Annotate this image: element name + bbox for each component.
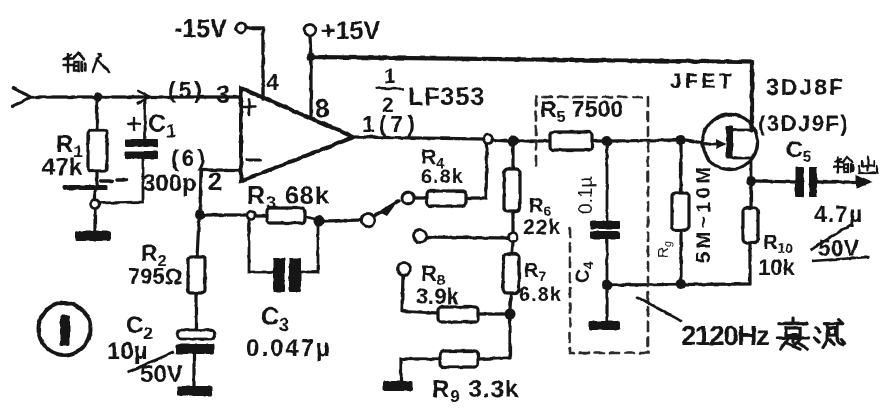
op-amp U1 triangle <box>241 88 354 181</box>
svg-text:2: 2 <box>208 168 222 196</box>
svg-text:6.8k: 6.8k <box>519 284 562 306</box>
capacitor C4 lead bottom <box>606 238 609 281</box>
JFET drain lead <box>733 129 752 132</box>
JFET source lead <box>733 158 751 177</box>
wire R3 to switch pole <box>324 220 362 221</box>
svg-text:(6): (6) <box>171 145 208 171</box>
capacitor C3 right branch <box>301 226 318 272</box>
node open circle C3 left tap <box>247 211 255 219</box>
node feedback junction <box>195 210 205 220</box>
svg-text:JFET: JFET <box>670 70 735 93</box>
node open circle on output wire <box>484 135 493 144</box>
wire C4 node to ground <box>605 290 608 321</box>
terminal +15V <box>305 25 316 36</box>
label input 输入 <box>63 53 109 72</box>
node +15V junction <box>307 53 316 62</box>
node open circle under R1 <box>91 200 100 209</box>
wire -15V to pin 4 <box>246 28 263 99</box>
wire input node to op-amp pin 3 <box>102 95 240 98</box>
svg-text:8: 8 <box>315 93 329 123</box>
switch pole terminal <box>362 214 375 227</box>
wire output circle to node <box>492 140 507 141</box>
svg-text:300p: 300p <box>142 170 197 197</box>
node R7 R8 R9 junction <box>505 309 516 320</box>
svg-text:10k: 10k <box>758 255 795 280</box>
node R6 R7 junction circle <box>509 233 518 242</box>
wire C4 node to gate node <box>612 140 676 141</box>
input arrow <box>13 88 31 106</box>
plus sign of C1 <box>128 118 140 130</box>
capacitor C3 plates <box>273 258 301 292</box>
wire source to C5 <box>756 181 795 182</box>
wire output node through R5 <box>518 139 550 142</box>
svg-text:0.047µ: 0.047µ <box>246 335 332 362</box>
slash of C2 value <box>128 352 174 372</box>
resistor R6 <box>504 146 520 232</box>
svg-text:2120Hz: 2120Hz <box>681 320 769 351</box>
svg-text:4.7µ: 4.7µ <box>814 201 863 227</box>
svg-text:+15V: +15V <box>321 17 380 45</box>
connector arrow on input wire <box>138 91 150 103</box>
node output junction <box>508 136 519 147</box>
wire pin 8 <box>309 61 312 118</box>
svg-text:47k: 47k <box>42 154 83 181</box>
ground under R9 <box>383 381 413 391</box>
wire gate node to JFET gate <box>686 140 703 143</box>
svg-text:R5 7500: R5 7500 <box>540 96 623 126</box>
capacitor C4 plates <box>590 221 620 239</box>
minus marker pin2 <box>247 159 260 162</box>
plus marker pin3 <box>243 99 255 115</box>
wire +15V to node <box>310 36 311 57</box>
dash marks near C1 <box>101 180 127 181</box>
capacitor C3 left branch <box>249 220 273 272</box>
svg-text:22k: 22k <box>523 216 561 239</box>
JFET channel bar <box>726 126 733 158</box>
wire throw C to R6 R7 node <box>427 237 509 238</box>
svg-text:1: 1 <box>384 65 396 88</box>
capacitor C1 lead top <box>144 99 147 139</box>
node C4 bottom junction <box>602 280 612 290</box>
transistor Q1 JFET circle <box>703 115 758 170</box>
ground under R1 <box>75 231 111 241</box>
capacitor C2 <box>176 330 215 386</box>
capacitor C1 plates 300p <box>125 139 158 159</box>
switch throw C terminal <box>414 230 427 243</box>
plate bar under R1 <box>63 185 108 199</box>
svg-text:R3 68k: R3 68k <box>247 182 330 213</box>
resistor R10 <box>743 186 758 283</box>
svg-text:3DJ8F: 3DJ8F <box>766 74 845 100</box>
svg-text:3: 3 <box>216 81 230 109</box>
svg-text:6.8k: 6.8k <box>421 166 464 188</box>
wire +15V rail to JFET drain <box>311 57 752 130</box>
wire C5 to output arrow <box>817 180 858 183</box>
svg-text:LF353: LF353 <box>408 83 485 111</box>
dashed box 2120Hz filter <box>536 97 648 353</box>
terminal -15V <box>236 23 246 33</box>
node 5M resistor bottom junction <box>676 279 686 289</box>
resistor R9 <box>401 319 510 381</box>
node source junction <box>746 176 756 186</box>
capacitor C1 lead bottom <box>100 159 143 203</box>
ground under C2 <box>177 386 212 396</box>
wire to ground under R1 <box>93 209 96 231</box>
wire op-amp pin 2 <box>200 170 241 212</box>
wire input to node <box>31 95 93 98</box>
bottom rail wire <box>607 284 750 285</box>
resistor R3 <box>255 208 314 223</box>
switch throw D terminal <box>398 263 411 276</box>
slash of C5 value <box>810 224 869 261</box>
node C4 top junction <box>602 136 612 146</box>
label output 输出 <box>834 157 877 173</box>
node R3 right junction <box>314 216 325 227</box>
fraction bar <box>376 88 404 89</box>
svg-text:3.9k: 3.9k <box>416 284 460 309</box>
svg-text:(5): (5) <box>168 77 205 103</box>
capacitor C5 plates <box>795 167 817 197</box>
resistor R5 <box>550 132 602 150</box>
resistor R8 <box>402 276 504 322</box>
resistor R7 <box>503 242 519 309</box>
wire feedback node to R3 <box>205 213 246 216</box>
svg-text:5M~10M: 5M~10M <box>693 164 715 263</box>
svg-text:R9 3.3k: R9 3.3k <box>432 376 519 406</box>
resistor R4 <box>414 144 487 206</box>
svg-text:-15V: -15V <box>174 15 227 43</box>
leader line to 2120Hz label <box>637 297 681 321</box>
output arrow <box>856 175 872 189</box>
svg-text:0.1µ: 0.1µ <box>576 177 597 214</box>
svg-text:4: 4 <box>266 69 279 95</box>
node gate junction <box>676 135 686 145</box>
resistor R2 <box>188 220 205 330</box>
node input junction <box>94 93 103 102</box>
wire op-amp output <box>354 137 483 139</box>
switch arm with arrow <box>374 201 399 216</box>
switch throw B terminal <box>402 192 414 204</box>
ground under C4 <box>589 321 620 330</box>
capacitor C4 lead top <box>606 146 609 221</box>
JFET gate lead with arrow <box>702 139 726 149</box>
svg-text:1(7): 1(7) <box>362 111 419 137</box>
resistor R1 <box>88 101 107 186</box>
svg-text:795Ω: 795Ω <box>128 264 182 289</box>
svg-text:(3DJ9F): (3DJ9F) <box>758 111 849 136</box>
resistor 5M-10M gate resistor <box>672 145 689 279</box>
circled I symbol <box>39 303 91 355</box>
